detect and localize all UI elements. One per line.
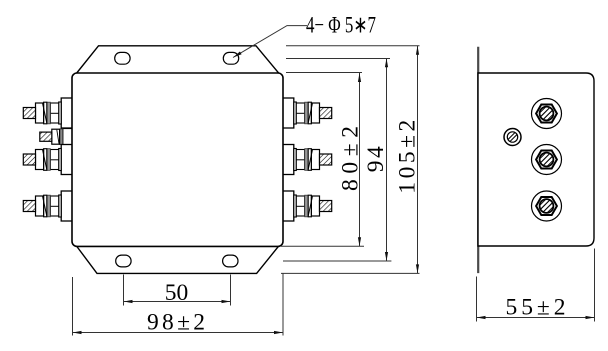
dim line 55 (477, 317, 595, 319)
ext line flange top (286, 45, 420, 47)
terminal L2 right (282, 145, 332, 175)
ext lines dim 55 (476, 277, 478, 322)
bottom mounting flange (74, 242, 283, 273)
mounting hole bottom-right (223, 255, 238, 267)
dim line 80 (359, 73, 361, 246)
ext lines dim 50 (123, 275, 125, 306)
terminal L2 left (23, 145, 73, 175)
ext line bottom hole center (283, 260, 391, 262)
side flange edge (477, 47, 479, 273)
side ground screw (504, 129, 521, 146)
terminal L3 left (23, 191, 73, 221)
arrows dim 55 (477, 316, 486, 319)
terminal L1 left (23, 98, 73, 128)
arrows dim 98 (73, 331, 82, 334)
mounting hole bottom-left (116, 255, 131, 267)
ground terminal left (40, 129, 74, 145)
mounting hole top-right (223, 52, 238, 64)
arrows dim 94 (385, 58, 388, 67)
terminal L1 right (282, 98, 332, 128)
side terminal 2 (532, 145, 562, 175)
ext line flange bottom (281, 272, 420, 274)
side terminal 3 (532, 191, 562, 221)
terminal L3 right (282, 191, 332, 221)
arrows dim 50 (124, 300, 133, 303)
top mounting flange (74, 46, 283, 77)
arrows dim 80 (358, 73, 361, 82)
leader arrow (233, 52, 242, 58)
side terminal 1 (532, 99, 562, 129)
leader line for 4-phi5*7 (233, 26, 307, 58)
ext line box top (286, 72, 362, 74)
svg-text:50: 50 (165, 280, 189, 306)
svg-text:105±2: 105±2 (395, 120, 421, 194)
filter body outline (72, 73, 283, 246)
svg-text:4− Φ 5∗7: 4− Φ 5∗7 (306, 13, 376, 39)
arrows dim 105 (416, 46, 419, 55)
dim line 105 (417, 46, 419, 274)
ext line box bottom (281, 245, 364, 247)
ext lines dim 98 (72, 277, 74, 336)
ext line top hole center (286, 58, 390, 60)
dim line 98 (73, 332, 284, 334)
mounting hole top-left (115, 52, 130, 64)
side body outline (478, 73, 594, 246)
dim line 50 (124, 301, 231, 303)
dim line 94 (386, 58, 388, 261)
